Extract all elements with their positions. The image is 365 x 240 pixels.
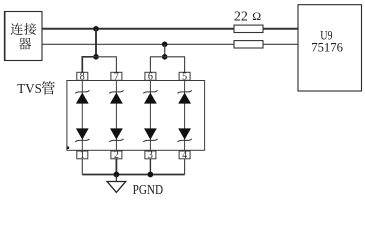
svg-text:PGND: PGND — [133, 183, 164, 198]
pin 6 (top) — [145, 72, 156, 83]
junction bus/pin3 — [148, 172, 154, 178]
svg-text:6: 6 — [148, 72, 153, 83]
svg-text:7: 7 — [114, 72, 119, 83]
wire: internal column 1 vertical — [81, 81, 83, 152]
wire: branch to pin5 — [165, 57, 185, 73]
svg-text:75176: 75176 — [311, 40, 343, 54]
TVS diode D1b (lower, cathode down) — [75, 128, 89, 141]
junction bus/pin2 — [114, 172, 120, 178]
wire: branch to pin7 — [96, 57, 116, 73]
svg-text:Ω: Ω — [252, 9, 261, 23]
TVS diode D2b (lower, cathode down) — [109, 128, 123, 141]
connector box (连接器) — [5, 12, 43, 61]
svg-text:TVS: TVS — [17, 82, 42, 97]
resistor R2 (bottom) — [234, 41, 263, 48]
wire: top line A from connector to U9 — [42, 28, 298, 30]
pin 7 (top) — [111, 72, 122, 83]
junction at branch split (164.7,56.8) — [162, 54, 168, 60]
TVS diode D1a (upper, cathode up) — [75, 90, 89, 103]
wire: internal column 2 vertical — [115, 81, 117, 152]
wire: bottom line B from connector to U9 — [42, 43, 298, 45]
TVS array body box — [67, 81, 205, 151]
svg-text:5: 5 — [182, 72, 187, 83]
wire: pin4 stub to ground bus — [184, 159, 186, 175]
junction at branch split (96,56.8) — [93, 54, 99, 60]
pin 1 (bottom) — [77, 150, 88, 161]
TVS diode D4a (upper, cathode up) — [177, 90, 191, 103]
pin 4 (bottom) — [179, 150, 190, 161]
TVS diode D3b (lower, cathode down) — [143, 128, 157, 141]
wire: pin2 stub to ground bus — [115, 159, 117, 175]
U9 75176 transceiver box — [298, 5, 362, 91]
label 接 (connector text line1 char2) — [24, 23, 36, 35]
svg-text:8: 8 — [80, 72, 85, 83]
resistor R1 22Ω (top) — [234, 25, 263, 32]
pin 5 (top) — [179, 72, 190, 83]
pin1 indicator dot — [67, 146, 70, 149]
pin 3 (bottom) — [145, 150, 156, 161]
wire: branch to pin8 — [82, 57, 96, 73]
TVS diode D3a (upper, cathode up) — [143, 90, 157, 103]
wire: pin3 stub to ground bus — [149, 159, 151, 175]
TVS diode D2a (upper, cathode up) — [109, 90, 123, 103]
ground symbol PGND — [107, 175, 126, 193]
pin 2 (bottom) — [111, 150, 122, 161]
wire: vertical from line B down to branch of pins 6/5 — [164, 44, 166, 57]
wire: internal column 4 vertical — [184, 81, 186, 152]
TVS diode D4b (lower, cathode down) — [177, 128, 191, 141]
label 连 (connector text line1 char1) — [11, 23, 23, 35]
wire: ground bus — [82, 174, 184, 176]
junction on line A at x=96 — [93, 26, 99, 32]
label 管 (TVS text char) — [42, 81, 55, 94]
junction on line B at x=164.7 — [162, 42, 168, 48]
svg-text:22: 22 — [234, 9, 248, 24]
label 器 (connector text line2) — [19, 38, 31, 50]
wire: vertical from line A down to branch of pins 8/7 — [95, 29, 97, 57]
wire: pin1 stub to ground bus — [81, 159, 83, 175]
wire: internal column 3 vertical — [149, 81, 151, 152]
pin 8 (top) — [77, 72, 88, 83]
wire: branch to pin6 — [150, 57, 164, 73]
